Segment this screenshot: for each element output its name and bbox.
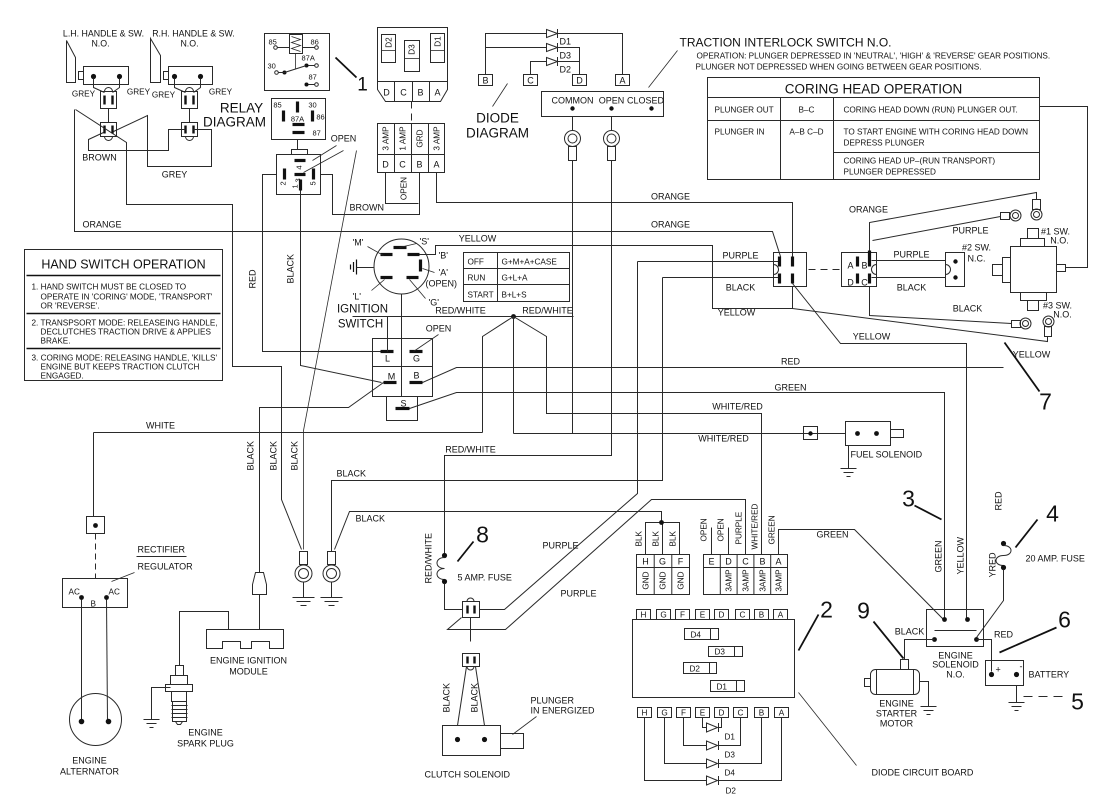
svg-text:ENGINE BUT KEEPS TRACTION CLUT: ENGINE BUT KEEPS TRACTION CLUTCH xyxy=(41,363,200,372)
wire 20 amp fuse to solenoid xyxy=(977,570,1004,638)
svg-text:1 AMP: 1 AMP xyxy=(399,126,408,151)
svg-text:RED/WHITE: RED/WHITE xyxy=(435,306,486,316)
OPEN pointer lines xyxy=(304,146,344,173)
ground symbol battery xyxy=(1009,703,1025,711)
board header B xyxy=(755,610,769,620)
ring terminal 2 xyxy=(321,552,343,606)
svg-text:D2: D2 xyxy=(690,665,701,674)
svg-text:PURPLE: PURPLE xyxy=(560,589,596,599)
relay pin 30 xyxy=(268,62,287,75)
svg-text:N.O.: N.O. xyxy=(946,670,965,680)
lower header B xyxy=(755,708,769,718)
wire OPEN down to 5 amp fuse xyxy=(445,161,612,554)
svg-text:GND: GND xyxy=(642,571,651,589)
numeral 9 pointer xyxy=(874,622,904,659)
svg-text:WHITE/RED: WHITE/RED xyxy=(751,503,760,549)
svg-text:BLACK: BLACK xyxy=(953,304,983,314)
svg-text:C: C xyxy=(738,709,744,718)
wire BLACK horizontal to connector xyxy=(663,277,780,279)
tapered connector on black wire xyxy=(253,573,267,595)
relay armature xyxy=(285,66,307,73)
svg-text:D1: D1 xyxy=(717,683,728,692)
svg-text:GND: GND xyxy=(659,571,668,589)
diode diagram pointer xyxy=(493,84,508,107)
board header F xyxy=(676,610,690,620)
wire OPEN stub D xyxy=(728,528,730,555)
engine ignition module xyxy=(207,630,284,649)
wire RED solenoid to battery xyxy=(977,640,992,672)
svg-text:D: D xyxy=(719,611,725,620)
svg-text:D1: D1 xyxy=(560,37,572,47)
svg-text:D4: D4 xyxy=(691,631,702,640)
svg-text:N.O.: N.O. xyxy=(91,39,109,49)
ground symbol starter xyxy=(921,707,937,715)
inline connector white wire xyxy=(87,517,105,534)
COMMON ring terminal xyxy=(565,117,581,161)
socket pin 2 xyxy=(279,169,288,186)
svg-text:20 AMP. FUSE: 20 AMP. FUSE xyxy=(1026,554,1085,564)
lower header D xyxy=(715,708,729,718)
wire switch to connector xyxy=(175,79,201,93)
svg-text:D2: D2 xyxy=(385,37,394,48)
svg-text:ORANGE: ORANGE xyxy=(83,220,122,230)
wire starter to ground xyxy=(920,682,929,707)
svg-text:WHITE/RED: WHITE/RED xyxy=(712,402,763,412)
svg-text:F: F xyxy=(678,557,684,567)
diode circuit board box xyxy=(633,620,795,698)
svg-text:SWITCH: SWITCH xyxy=(338,319,383,331)
board diode D2 xyxy=(684,663,717,674)
svg-text:'L': 'L' xyxy=(353,292,362,302)
svg-text:S: S xyxy=(400,399,406,409)
engine starter motor xyxy=(865,660,920,729)
svg-text:PLUNGER OUT: PLUNGER OUT xyxy=(715,106,774,115)
harness connector left half xyxy=(774,253,807,287)
svg-text:YELLOW: YELLOW xyxy=(956,536,966,574)
svg-text:A: A xyxy=(619,76,625,86)
svg-text:RED: RED xyxy=(781,357,801,367)
svg-text:OR 'REVERSE'.: OR 'REVERSE'. xyxy=(41,302,100,311)
svg-text:YELLOW: YELLOW xyxy=(853,332,891,342)
svg-text:WHITE: WHITE xyxy=(146,421,175,431)
svg-text:G: G xyxy=(413,354,420,364)
svg-text:BLACK: BLACK xyxy=(246,441,256,471)
harness connector right half A B D C xyxy=(842,251,877,288)
svg-text:B: B xyxy=(91,600,97,609)
relay footprint box xyxy=(272,99,326,140)
svg-text:BLK: BLK xyxy=(635,530,644,546)
R.H. mating connector lower xyxy=(182,123,198,141)
fuse D1 xyxy=(431,34,445,63)
wire RED/WHITE L pin up xyxy=(387,317,389,352)
wire BLACK solenoid to starter xyxy=(905,640,935,660)
svg-text:D1: D1 xyxy=(725,733,736,742)
svg-text:BLACK: BLACK xyxy=(726,283,756,293)
fuel solenoid xyxy=(846,422,923,460)
interlock switch COMMON OPEN CLOSED box xyxy=(542,92,665,117)
wire OPEN stub E xyxy=(711,528,713,555)
svg-text:F: F xyxy=(680,611,685,620)
svg-text:IGNITION: IGNITION xyxy=(337,304,388,316)
svg-text:PURPLE: PURPLE xyxy=(735,511,744,544)
svg-text:PLUNGER: PLUNGER xyxy=(531,696,575,706)
svg-text:L: L xyxy=(385,354,390,364)
diode diagram terminal D xyxy=(573,75,587,86)
ignition pin G xyxy=(407,278,440,308)
footprint pin 87 xyxy=(293,129,321,138)
ring terminal 1 xyxy=(293,552,315,606)
battery xyxy=(986,661,1070,686)
svg-text:OPEN: OPEN xyxy=(717,518,726,541)
svg-text:R.H. HANDLE & SW.: R.H. HANDLE & SW. xyxy=(152,29,235,39)
svg-text:C: C xyxy=(399,160,406,170)
svg-text:RED: RED xyxy=(248,269,258,289)
wire BLACK ring2 up to connector xyxy=(332,278,663,552)
wire PURPLE from C cell xyxy=(448,500,746,630)
svg-text:D3: D3 xyxy=(715,648,726,657)
wire BLACK to limit switch block xyxy=(872,277,946,279)
svg-text:BLACK: BLACK xyxy=(286,254,296,284)
svg-text:DECLUTCHES TRACTION DRIVE & A: DECLUTCHES TRACTION DRIVE & APPLIES xyxy=(41,328,212,337)
ignition pin B xyxy=(408,251,449,261)
diode circuit board pointer xyxy=(799,693,857,766)
R.H. handle switch SW2 xyxy=(152,29,235,85)
junction dot BLK bus xyxy=(659,520,664,525)
svg-text:86: 86 xyxy=(316,113,324,122)
svg-text:SPARK PLUG: SPARK PLUG xyxy=(177,739,234,749)
svg-text:B: B xyxy=(416,160,422,170)
svg-text:H: H xyxy=(642,557,649,567)
svg-text:COMMON: COMMON xyxy=(552,96,594,106)
svg-text:D3: D3 xyxy=(408,44,417,55)
svg-text:D3: D3 xyxy=(560,51,572,61)
svg-text:E: E xyxy=(700,709,706,718)
wire battery to ground xyxy=(1016,686,1018,703)
L.H. handle switch SW1 xyxy=(63,29,144,85)
svg-text:BATTERY: BATTERY xyxy=(1029,670,1070,680)
svg-text:3AMP: 3AMP xyxy=(775,569,784,592)
wire PURPLE horizontal to connector xyxy=(638,261,780,263)
wire PURPLE diag to ring xyxy=(873,217,1001,241)
svg-text:M: M xyxy=(388,372,396,382)
socket pin 5 xyxy=(309,169,318,186)
lower header C xyxy=(734,708,748,718)
svg-text:-: - xyxy=(1020,662,1023,672)
svg-text:GREEN: GREEN xyxy=(817,530,849,540)
svg-text:B–C: B–C xyxy=(799,106,815,115)
engine solenoid xyxy=(927,610,984,680)
diode net D3 xyxy=(684,718,741,760)
svg-text:RED: RED xyxy=(994,630,1014,640)
rectifier pointer xyxy=(112,573,135,582)
svg-text:PLUNGER IN: PLUNGER IN xyxy=(715,128,765,137)
svg-text:MODULE: MODULE xyxy=(229,667,268,677)
relay socket box xyxy=(277,155,321,195)
wire RED/WHITE bus xyxy=(353,316,574,318)
svg-text:A: A xyxy=(434,88,440,98)
svg-text:GREY: GREY xyxy=(162,170,188,180)
svg-text:OPEN: OPEN xyxy=(331,134,357,144)
wire from fuse D xyxy=(386,173,419,204)
svg-text:BLACK: BLACK xyxy=(269,441,279,471)
svg-text:85: 85 xyxy=(269,38,277,47)
OPEN pointer xyxy=(414,335,439,352)
svg-text:B: B xyxy=(482,76,488,86)
svg-text:B: B xyxy=(413,371,419,381)
svg-text:REGULATOR: REGULATOR xyxy=(138,562,194,572)
svg-text:D: D xyxy=(725,557,732,567)
svg-text:ORANGE: ORANGE xyxy=(651,192,690,202)
engine alternator xyxy=(60,694,122,777)
svg-text:AC: AC xyxy=(109,588,120,597)
svg-text:YRED: YRED xyxy=(988,552,998,578)
board header H xyxy=(637,610,651,620)
wire BLACK ring2 diag to bus xyxy=(335,512,662,550)
lower header A xyxy=(775,708,789,718)
5 amp fuse xyxy=(424,533,512,584)
svg-text:C: C xyxy=(740,611,746,620)
svg-text:PURPLE: PURPLE xyxy=(542,541,578,551)
svg-text:5: 5 xyxy=(1071,689,1084,715)
footprint pin 87A xyxy=(291,115,305,125)
svg-text:A: A xyxy=(775,557,781,567)
svg-text:1. HAND SWITCH MUST BE CLOSED: 1. HAND SWITCH MUST BE CLOSED TO xyxy=(32,283,187,292)
svg-text:WHITE/RED: WHITE/RED xyxy=(698,434,749,444)
numeral 1 pointer xyxy=(336,58,357,78)
diode net D2 xyxy=(645,718,782,796)
svg-text:PLUNGER DEPRESSED: PLUNGER DEPRESSED xyxy=(844,168,936,177)
wire YELLOW connector to engine solenoid xyxy=(793,284,967,620)
board header D xyxy=(715,610,729,620)
svg-text:BRAKE.: BRAKE. xyxy=(41,337,71,346)
numeral 3 pointer xyxy=(915,506,942,520)
ignition pin L xyxy=(353,278,393,302)
clutch solenoid xyxy=(443,726,524,756)
wire module to spark plug xyxy=(180,612,229,656)
svg-text:+: + xyxy=(996,665,1001,675)
svg-text:IN ENERGIZED: IN ENERGIZED xyxy=(531,706,596,716)
svg-text:FUEL SOLENOID: FUEL SOLENOID xyxy=(851,450,923,460)
svg-text:G+L+A: G+L+A xyxy=(502,274,528,283)
svg-text:A: A xyxy=(433,160,439,170)
svg-text:A: A xyxy=(779,709,785,718)
svg-text:B: B xyxy=(861,261,867,271)
svg-text:ENGINE: ENGINE xyxy=(72,756,107,766)
ignition truth table xyxy=(464,253,570,302)
svg-text:BLK: BLK xyxy=(669,530,678,546)
wire brown branch to ground rings xyxy=(76,110,302,550)
relay pin 87 xyxy=(305,73,319,87)
svg-text:OPEN: OPEN xyxy=(700,518,709,541)
svg-text:'A': 'A' xyxy=(439,268,449,278)
svg-text:RECTIFIER: RECTIFIER xyxy=(138,545,186,555)
svg-text:1: 1 xyxy=(357,75,368,96)
wire BLACK relay pin1 down xyxy=(301,191,382,383)
wire connector stem xyxy=(108,109,110,123)
svg-text:85: 85 xyxy=(273,101,281,110)
svg-text:SOLENOID: SOLENOID xyxy=(932,660,979,670)
svg-text:B: B xyxy=(759,557,765,567)
svg-text:5: 5 xyxy=(309,181,318,185)
svg-text:A: A xyxy=(778,611,784,620)
svg-text:3AMP: 3AMP xyxy=(759,569,768,592)
wire PURPLE vertical to clutch xyxy=(480,262,638,610)
svg-text:BLACK: BLACK xyxy=(470,683,480,713)
numeral 4 pointer xyxy=(1016,520,1038,548)
ignition pin S xyxy=(394,237,430,248)
svg-text:DIAGRAM: DIAGRAM xyxy=(203,115,266,130)
wire YELLOW diag ring to connector xyxy=(793,309,1048,342)
svg-text:CORING HEAD DOWN (RUN) PLUNGER: CORING HEAD DOWN (RUN) PLUNGER OUT. xyxy=(844,106,1018,115)
svg-text:OPEN: OPEN xyxy=(599,96,625,106)
fuel solenoid ground xyxy=(841,446,857,477)
ignition switch circle xyxy=(374,239,429,294)
numeral 8 pointer xyxy=(458,542,474,562)
ignition connector S cell xyxy=(387,397,418,421)
board header C xyxy=(736,610,750,620)
label TRACTION INTERLOCK SWITCH N.O. xyxy=(680,36,1051,72)
wire ORANGE from L.H. connector xyxy=(75,110,781,257)
clutch connector lower xyxy=(463,654,480,671)
svg-text:ENGINE: ENGINE xyxy=(879,699,914,709)
socket pin 3 xyxy=(294,175,306,183)
svg-text:CORING HEAD OPERATION: CORING HEAD OPERATION xyxy=(785,82,963,97)
svg-text:OFF: OFF xyxy=(468,258,484,267)
svg-text:GRD: GRD xyxy=(416,129,425,147)
relay coil stem xyxy=(295,54,297,70)
svg-text:OPERATION: PLUNGER DEPRESSED I: OPERATION: PLUNGER DEPRESSED IN 'NEUTRAL… xyxy=(697,52,1051,61)
R.H. handle lever xyxy=(151,39,161,83)
svg-text:N.O.: N.O. xyxy=(1050,236,1069,246)
rectifier regulator box xyxy=(63,579,128,609)
numeral 2 pointer xyxy=(799,615,819,651)
diode net D4 xyxy=(665,718,762,778)
svg-text:RED/WHITE: RED/WHITE xyxy=(424,533,434,584)
L.H. mating connector lower xyxy=(101,123,117,141)
svg-text:ENGAGED.: ENGAGED. xyxy=(41,372,84,381)
svg-text:ENGINE IGNITION: ENGINE IGNITION xyxy=(210,656,287,666)
diode diagram terminal B xyxy=(479,75,493,86)
footprint center pin xyxy=(296,102,299,113)
svg-text:1: 1 xyxy=(291,184,300,188)
svg-text:START: START xyxy=(468,291,494,300)
svg-text:OPEN: OPEN xyxy=(426,324,452,334)
svg-text:6: 6 xyxy=(1058,607,1071,633)
svg-text:DIODE CIRCUIT BOARD: DIODE CIRCUIT BOARD xyxy=(872,768,974,778)
svg-text:E: E xyxy=(708,557,714,567)
label RECTIFIER REGULATOR xyxy=(137,545,194,572)
svg-text:DIAGRAM: DIAGRAM xyxy=(466,126,529,141)
svg-text:HAND SWITCH OPERATION: HAND SWITCH OPERATION xyxy=(41,258,205,272)
OPEN ring terminal xyxy=(604,117,620,161)
svg-text:3AMP: 3AMP xyxy=(725,569,734,592)
fuse D2 xyxy=(382,35,396,63)
svg-text:87A: 87A xyxy=(291,115,304,124)
svg-text:BLACK: BLACK xyxy=(442,683,452,713)
wire footprint to socket xyxy=(297,140,299,150)
numeral 5 pointer dashed xyxy=(1024,696,1063,698)
wire WHITE down to rectifier xyxy=(93,433,95,517)
engine connector block H G F / GND xyxy=(637,555,690,595)
svg-text:7: 7 xyxy=(1039,389,1052,415)
svg-text:D4: D4 xyxy=(725,769,736,778)
svg-text:CLOSED: CLOSED xyxy=(627,96,665,106)
svg-text:A: A xyxy=(847,261,853,271)
svg-text:E: E xyxy=(700,611,706,620)
svg-text:30: 30 xyxy=(268,62,276,71)
svg-text:D: D xyxy=(383,88,390,98)
wire PURPLE to limit switch block xyxy=(872,260,946,262)
wire ORANGE from fuse A to connector xyxy=(437,173,793,257)
svg-text:3 AMP: 3 AMP xyxy=(382,126,391,151)
board header G xyxy=(657,610,671,620)
svg-text:RUN: RUN xyxy=(468,274,486,283)
lower header G xyxy=(658,708,672,718)
fuse block xyxy=(378,124,445,173)
wire WHITE branch from junction xyxy=(483,317,514,433)
diode D3 xyxy=(486,43,580,75)
wire to ignition module xyxy=(259,595,261,630)
svg-text:A–B C–D: A–B C–D xyxy=(789,128,823,137)
diode D1 xyxy=(486,29,623,75)
limit switch block xyxy=(946,253,965,287)
svg-text:2. TRANSPSORT MODE: RELEASEIN: 2. TRANSPSORT MODE: RELEASEING HANDLE, xyxy=(32,319,218,328)
svg-text:B: B xyxy=(417,88,423,98)
wire GREEN from A cell xyxy=(779,530,945,621)
traction pointer xyxy=(649,51,678,88)
svg-text:N.C.: N.C. xyxy=(968,254,986,264)
HAND SWITCH OPERATION box xyxy=(25,250,223,381)
svg-text:YELLOW: YELLOW xyxy=(459,234,497,244)
svg-text:N.O.: N.O. xyxy=(1053,310,1072,320)
svg-text:BLACK: BLACK xyxy=(897,283,927,293)
svg-text:G: G xyxy=(659,557,666,567)
board header A xyxy=(774,610,788,620)
svg-text:ENGINE: ENGINE xyxy=(188,728,223,738)
svg-text:3. CORING MODE: RELEASING HAN: 3. CORING MODE: RELEASING HANDLE, 'KILLS… xyxy=(32,354,218,363)
plunger pointer xyxy=(513,717,537,735)
wire BROWN between handle connectors xyxy=(89,130,186,151)
svg-text:ALTERNATOR: ALTERNATOR xyxy=(60,767,120,777)
wire from table to valve right tab xyxy=(1040,107,1088,268)
svg-text:GREEN: GREEN xyxy=(768,515,777,544)
svg-text:D: D xyxy=(576,76,583,86)
svg-text:GREY: GREY xyxy=(127,88,151,97)
svg-text:BROWN: BROWN xyxy=(82,153,117,163)
board diode D4 xyxy=(685,629,719,640)
diode net D1 xyxy=(703,718,736,742)
footprint pin 85 xyxy=(273,101,283,122)
svg-text:D2: D2 xyxy=(726,787,737,796)
svg-text:8: 8 xyxy=(476,522,489,548)
svg-text:GREY: GREY xyxy=(72,90,96,99)
svg-text:OPERATE IN 'CORING' MODE, 'TRA: OPERATE IN 'CORING' MODE, 'TRANSPORT' xyxy=(41,293,213,302)
CORING HEAD OPERATION table xyxy=(708,78,1040,180)
wire WHITE/RED right branch to B cell xyxy=(514,317,762,555)
connector D C B A trapezoid xyxy=(378,82,448,102)
svg-text:DIODE: DIODE xyxy=(476,111,519,126)
20 amp fuse xyxy=(988,541,1085,578)
svg-text:YELLOW: YELLOW xyxy=(1013,350,1051,360)
svg-text:H: H xyxy=(641,611,647,620)
svg-text:2: 2 xyxy=(820,597,833,623)
svg-text:C: C xyxy=(400,88,407,98)
svg-text:L.H. HANDLE & SW.: L.H. HANDLE & SW. xyxy=(63,29,144,39)
black ring terminal valve xyxy=(1012,318,1032,329)
svg-text:TO START ENGINE WITH CORING HE: TO START ENGINE WITH CORING HEAD DOWN xyxy=(844,128,1029,137)
svg-text:STARTER: STARTER xyxy=(876,709,918,719)
fuse D3 xyxy=(405,41,420,72)
